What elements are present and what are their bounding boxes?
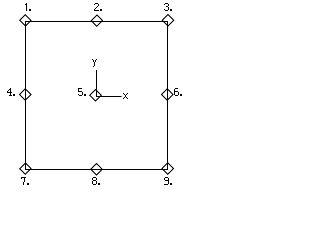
- node label 5.: [78, 88, 86, 96]
- keypoint 7 marker (bottom-left corner diamond): [20, 163, 31, 174]
- node label 9.: [164, 177, 172, 185]
- keypoint 2 marker (top-middle diamond): [91, 15, 102, 26]
- node label 2.: [94, 3, 102, 11]
- keypoint 9 marker (bottom-right corner diamond): [162, 163, 173, 174]
- keypoint 8 marker (bottom-middle diamond): [91, 164, 102, 175]
- x-axis wire: [97, 96, 122, 98]
- node label 8.: [92, 177, 100, 185]
- node label 1.: [25, 3, 31, 11]
- node label 4.: [7, 88, 15, 96]
- axis label x: [123, 93, 128, 99]
- keypoint 4 marker (mid-left diamond): [20, 89, 31, 100]
- wire square outline (area boundary lines): [26, 22, 168, 170]
- node label 3.: [164, 3, 172, 11]
- keypoint 1 marker (top-left corner diamond): [20, 15, 31, 26]
- keypoint 6 marker (mid-right diamond): [162, 89, 173, 100]
- node label 6.: [174, 88, 182, 96]
- keypoint 3 marker (top-right corner diamond): [162, 15, 173, 26]
- axis label y: [92, 59, 97, 67]
- keypoint 5 marker (center diamond): [90, 90, 101, 101]
- node label 7.: [21, 177, 29, 185]
- y-axis wire: [96, 70, 98, 97]
